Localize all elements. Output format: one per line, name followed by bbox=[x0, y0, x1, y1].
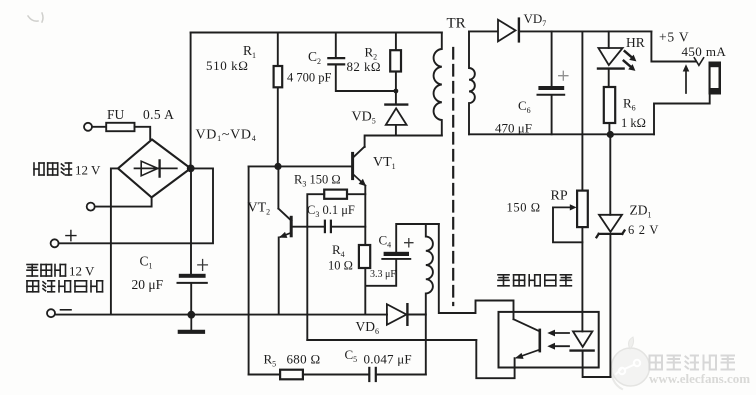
label 光电耦合管 bbox=[498, 275, 571, 286]
svg-text:1 kΩ: 1 kΩ bbox=[621, 116, 646, 130]
wire bridge left vertex drop bbox=[111, 168, 118, 314]
wire HR to R6 bbox=[608, 69, 610, 87]
wire left feedback rail down bbox=[248, 166, 250, 374]
zener ZD1 bbox=[597, 215, 625, 237]
svg-text:12 V: 12 V bbox=[75, 163, 101, 178]
wire VT2 base wire bbox=[293, 226, 325, 228]
wire secondary to VD7 bbox=[469, 30, 497, 32]
wire ground rail bbox=[55, 314, 387, 316]
wire VT2 emitter lead bbox=[278, 237, 280, 313]
opto LED bbox=[571, 331, 594, 350]
wire winding top to opto collector bbox=[439, 224, 514, 319]
diode VD6 bbox=[387, 304, 408, 325]
resistor R3 bbox=[324, 190, 347, 199]
resistor R1 bbox=[274, 66, 283, 87]
svg-text:4 700 pF: 4 700 pF bbox=[287, 71, 332, 85]
wire ZD1 top lead bbox=[609, 135, 611, 215]
plus sign at DC input bbox=[66, 231, 76, 241]
wire AC2 to bridge bottom bbox=[95, 197, 152, 206]
wire HR top lead bbox=[608, 31, 610, 48]
svg-text:3.3 μF: 3.3 μF bbox=[370, 269, 396, 280]
wire plus5 rail drop to RP bbox=[581, 31, 583, 190]
svg-text:TR: TR bbox=[447, 16, 466, 32]
wire R3 leads bbox=[307, 194, 365, 227]
svg-text:RP: RP bbox=[551, 189, 568, 204]
wire left positive rail bbox=[190, 33, 193, 314]
svg-text:C3 0.1 μF: C3 0.1 μF bbox=[307, 203, 355, 219]
wire C2 bottom lead bbox=[336, 66, 396, 92]
transistor VT1 base bar bbox=[351, 153, 354, 178]
resistor R5 680 bbox=[280, 370, 303, 380]
output voltage arrow bbox=[683, 64, 690, 93]
wire opto emitter return bbox=[476, 340, 514, 378]
wire plus5 top rail bbox=[520, 30, 651, 32]
diode VD7 bbox=[498, 19, 519, 42]
node VT1 base junction (dot) bbox=[274, 163, 281, 170]
terminal DC minus input bbox=[47, 309, 55, 317]
svg-text:680 Ω: 680 Ω bbox=[287, 352, 321, 367]
opto light arrow lower bbox=[547, 343, 569, 350]
transformer secondary winding bbox=[469, 31, 475, 134]
wire C2 top lead bbox=[335, 33, 337, 58]
fuse FU body bbox=[106, 123, 134, 131]
opto phototransistor collector bbox=[514, 319, 540, 331]
wire R2 top lead bbox=[395, 33, 397, 51]
node bridge positive output (dot) bbox=[187, 165, 195, 173]
terminal DC plus input bbox=[51, 239, 59, 247]
wire base rail to VT1 bbox=[249, 165, 353, 167]
ground symbol bbox=[180, 315, 203, 332]
svg-text:12 V: 12 V bbox=[69, 264, 95, 279]
svg-text:0.5 A: 0.5 A bbox=[143, 107, 174, 122]
svg-text:150 Ω: 150 Ω bbox=[507, 201, 541, 215]
capacitor C1 20uF bbox=[178, 260, 208, 283]
wire opto LED cathode bbox=[583, 351, 611, 377]
svg-text:HR: HR bbox=[626, 35, 645, 50]
node C2-R2 junction (small dot) bbox=[394, 89, 399, 94]
LED HR bbox=[598, 48, 624, 69]
watermark text 电子发烧友 bbox=[650, 356, 735, 370]
bridge rectifier VD1-VD4 diamond bbox=[118, 140, 191, 198]
capacitor C4 3.3uF bbox=[382, 239, 413, 259]
terminal AC input 2 bbox=[87, 203, 95, 211]
svg-text:82 kΩ: 82 kΩ bbox=[347, 59, 381, 74]
transformer feedback winding bbox=[426, 224, 433, 375]
wire VT2 base node drop bbox=[306, 227, 308, 340]
wire C6 bottom lead bbox=[551, 95, 553, 134]
bridge inner diode bbox=[135, 160, 177, 176]
output connector plug bbox=[709, 62, 722, 95]
output current arrowhead V bbox=[694, 58, 703, 66]
node R6 bottom junction (dot) bbox=[607, 131, 614, 138]
opto phototransistor bar bbox=[538, 330, 541, 351]
wire R6 bottom lead bbox=[608, 123, 610, 134]
wire RP to opto LED bbox=[581, 227, 583, 331]
wire plus5 output loop bbox=[651, 31, 709, 134]
svg-text:510 kΩ: 510 kΩ bbox=[206, 58, 249, 73]
optocoupler box bbox=[499, 312, 599, 368]
wire fuse to bridge top bbox=[135, 127, 151, 139]
wire C6 top lead bbox=[551, 31, 553, 86]
svg-text:20 μF: 20 μF bbox=[132, 277, 164, 292]
transformer core (dashed) bbox=[452, 48, 454, 305]
watermark elecfans logo bbox=[612, 337, 650, 389]
capacitor C5 0.047uF bbox=[369, 368, 376, 381]
wire VD6 cathode lead bbox=[407, 314, 425, 316]
wire RP wiper link bbox=[553, 207, 582, 242]
capacitor C3 0.1uF bbox=[325, 221, 331, 232]
wire C3 right lead bbox=[331, 226, 365, 228]
opto light arrow upper bbox=[547, 330, 569, 337]
wire R2 bottom lead bbox=[395, 72, 397, 105]
capacitor C6 470uF bbox=[538, 71, 568, 95]
transistor VT1 emitter bbox=[354, 175, 366, 186]
wire VT1 emitter lead bbox=[364, 186, 366, 245]
wire top rail bbox=[191, 32, 442, 34]
wire secondary bottom rail bbox=[469, 133, 654, 135]
resistor R2 bbox=[390, 50, 401, 71]
wire C4 top lead bbox=[396, 224, 439, 252]
scan smudge bbox=[28, 13, 43, 22]
svg-text:0.047 μF: 0.047 μF bbox=[364, 352, 412, 367]
transistor VT2 base bar bbox=[290, 217, 293, 236]
transistor VT2 collector bbox=[278, 168, 291, 221]
diode VD5 bbox=[385, 105, 407, 125]
svg-text:R3 150 Ω: R3 150 Ω bbox=[294, 173, 341, 189]
opto phototransistor emitter bbox=[515, 350, 540, 359]
potentiometer RP wiper arrow bbox=[553, 204, 577, 210]
label 点烟器12 V bbox=[27, 264, 95, 279]
resistor R6 bbox=[604, 87, 615, 123]
svg-text:FU: FU bbox=[107, 107, 125, 122]
wire ZD1 bottom lead bbox=[609, 236, 611, 377]
label 电源输入端 bbox=[27, 281, 103, 292]
resistor R4 bbox=[359, 245, 370, 268]
svg-text:10 Ω: 10 Ω bbox=[328, 259, 353, 273]
svg-text:www.elecfans.com: www.elecfans.com bbox=[649, 371, 750, 386]
LED HR light arrows bbox=[624, 51, 637, 71]
potentiometer RP body bbox=[577, 191, 588, 228]
wire R1 leads bbox=[277, 33, 279, 165]
wire R4 bottom lead bbox=[365, 260, 396, 314]
wire VD5 bottom lead bbox=[395, 126, 397, 136]
svg-text:+5 V: +5 V bbox=[659, 30, 689, 45]
capacitor C2 4700pF bbox=[328, 58, 344, 64]
svg-text:450 mA: 450 mA bbox=[682, 44, 727, 59]
svg-text:6 2 V: 6 2 V bbox=[628, 223, 659, 237]
svg-text:VD1~VD4: VD1~VD4 bbox=[196, 128, 257, 144]
wire feedback bottom rail bbox=[249, 374, 426, 376]
svg-text:470 μF: 470 μF bbox=[495, 121, 532, 136]
terminal AC input 1 (fuse side) bbox=[84, 123, 92, 131]
label 接交流12 V bbox=[34, 163, 101, 178]
wire DC plus to bridge node bbox=[59, 168, 213, 243]
wire base-node feedback link bbox=[307, 339, 476, 341]
transistor VT2 emitter bbox=[279, 232, 292, 238]
node ground junction (dot) bbox=[187, 311, 195, 319]
wire fuse input lead bbox=[92, 126, 106, 128]
wire VT1 collector rail bbox=[354, 136, 442, 157]
minus sign at DC input bbox=[61, 309, 72, 311]
transformer primary winding bbox=[434, 33, 442, 136]
